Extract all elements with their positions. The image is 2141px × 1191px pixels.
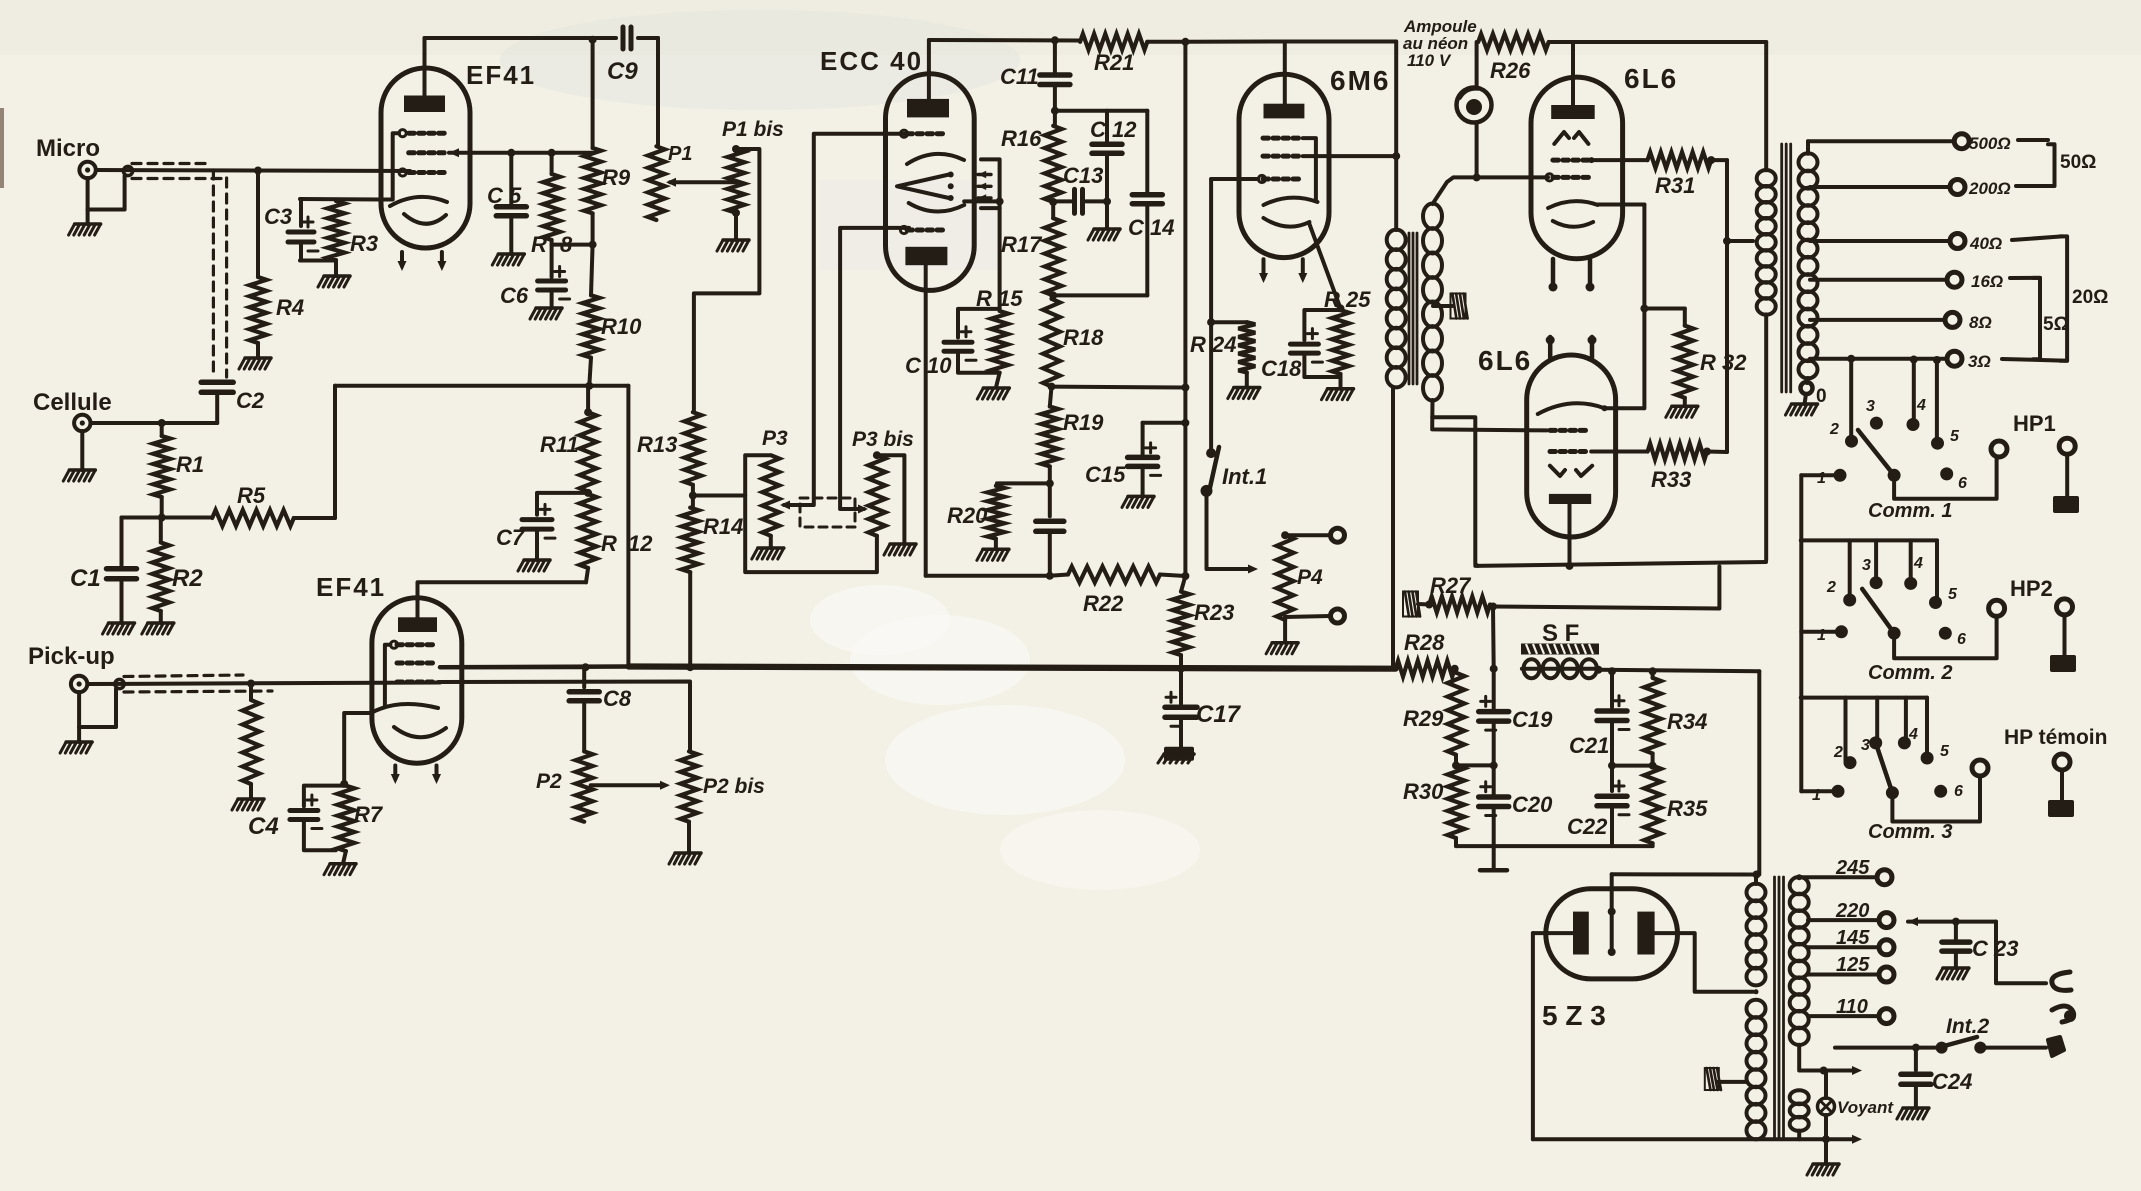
label R10: [601, 314, 642, 339]
svg-text:3: 3: [1862, 557, 1871, 574]
wire C3-R3 top node: [300, 197, 392, 202]
svg-text:R18: R18: [1063, 325, 1104, 350]
node R33 right: [1703, 448, 1711, 456]
node R9 bottom: [589, 241, 597, 249]
wire R9-R10 link: [591, 213, 595, 244]
tube 6M6 cathode arc: [1264, 198, 1318, 205]
wire B+ corner drop: [1757, 671, 1761, 874]
wire T2 primary bottom: [1799, 1045, 1823, 1071]
label R3: [350, 231, 378, 256]
svg-text:220: 220: [1835, 900, 1869, 922]
label 200ohm: [1968, 179, 2011, 198]
tap 125: [1808, 967, 1894, 982]
capacitor C18: [1290, 310, 1340, 377]
wire 3 to brackets: [2002, 359, 2067, 361]
transformer T2 filament winding: [1790, 1090, 1809, 1131]
svg-text:C3: C3: [264, 204, 292, 229]
ground C5: [492, 254, 524, 265]
svg-text:C 12: C 12: [1090, 117, 1137, 142]
tube EF41-2 grid row g1: [397, 680, 433, 685]
resistor R13: [684, 412, 701, 507]
label 6M6: [1330, 65, 1390, 96]
tap 500: [1808, 134, 1969, 154]
label 245: [1835, 857, 1870, 879]
wire shield dashes bottom: [132, 177, 222, 180]
label C18: [1261, 356, 1302, 381]
label R32: [1700, 350, 1747, 375]
capacitor C11: [1040, 40, 1070, 126]
wire bus drop x628: [626, 386, 630, 667]
node voyant top: [1820, 1067, 1828, 1075]
ground C12: [1088, 229, 1120, 240]
tube 6L6-2 cathode arc: [1538, 403, 1605, 414]
label Voyant: [1837, 1098, 1894, 1117]
wire T1 primary bottom: [1391, 387, 1395, 669]
label R20: [947, 503, 988, 528]
capacitor C10: [944, 309, 1000, 373]
ground OPT 0: [1786, 394, 1818, 415]
wire EF41-2 screen exit: [440, 665, 584, 669]
label Micro: [36, 135, 100, 162]
tube ECC40 cathode arc upper: [907, 154, 964, 164]
node R17 bottom: [1049, 291, 1057, 299]
svg-text:6M6: 6M6: [1330, 65, 1390, 96]
node R24 tap: [1207, 318, 1215, 326]
switch Int.1: [1201, 447, 1220, 497]
node C23 tap: [1952, 918, 1960, 926]
wire R8-R9 bottom link: [552, 243, 593, 247]
svg-text:C9: C9: [607, 58, 638, 85]
node R25 top: [1337, 304, 1345, 312]
label comm1 digits: [1817, 397, 1967, 492]
ground HP3: [2048, 800, 2074, 817]
tube EF41-1 grid row g2: [409, 150, 445, 155]
plug prong a: [2052, 972, 2071, 990]
label ECC40: [820, 46, 923, 76]
tube 6L6-1 plate box: [1551, 105, 1595, 119]
resistor R12: [580, 492, 597, 583]
capacitor C22: [1597, 766, 1629, 847]
svg-text:C11: C11: [1000, 64, 1039, 89]
label P2: [536, 770, 562, 793]
svg-text:20Ω: 20Ω: [2072, 287, 2108, 308]
ground Voyant: [1807, 1139, 1839, 1175]
tap 3: [1810, 351, 1962, 366]
capacitor C6: [538, 245, 570, 308]
svg-text:16Ω: 16Ω: [1971, 272, 2003, 291]
wire R21 to rail: [1147, 40, 1185, 44]
switch Comm2 contacts: [1835, 576, 1952, 640]
svg-text:5Ω: 5Ω: [2043, 314, 2069, 335]
svg-text:R31: R31: [1655, 173, 1695, 198]
label R27: [1430, 573, 1472, 598]
tube ECC40 grid row 2: [900, 226, 942, 233]
label R21: [1094, 50, 1134, 75]
capacitor C2: [201, 382, 233, 423]
resistor R28: [1396, 661, 1455, 677]
tube 6M6 heater arc: [1264, 218, 1310, 227]
tube 5Z3 plate right: [1637, 912, 1654, 955]
label C22: [1567, 814, 1608, 839]
wire ECC40 cathode link: [964, 197, 1003, 205]
svg-text:3Ω: 3Ω: [1968, 352, 1991, 371]
svg-text:6: 6: [1957, 631, 1966, 648]
wire cathode bus link: [1493, 567, 1719, 609]
resistor R23: [1173, 576, 1190, 669]
label C2: [236, 388, 265, 413]
svg-text:Comm. 2: Comm. 2: [1868, 662, 1952, 684]
label C13: [1063, 163, 1103, 188]
svg-text:R11: R11: [540, 432, 579, 457]
switch Comm3 contacts: [1832, 736, 1948, 799]
svg-text:Comm. 3: Comm. 3: [1868, 821, 1952, 843]
wire EF41-1 plate stem: [423, 38, 427, 96]
svg-text:R30: R30: [1403, 779, 1444, 804]
wire R13 to P3: [693, 455, 769, 495]
wire EF41-2 cathode lead: [344, 713, 371, 784]
svg-text:R1: R1: [176, 452, 204, 477]
tube ECC40 cathode arc lower: [909, 203, 965, 212]
capacitor C23: [1942, 922, 1970, 968]
resistor R22: [1050, 567, 1186, 583]
label HP2: [2010, 576, 2053, 601]
wire Micro jack ground jog: [88, 176, 125, 210]
wire 6L6-2 plate stem: [1566, 504, 1574, 570]
wire C23 line: [1908, 917, 1996, 926]
label R4: [276, 295, 304, 320]
wire ECC40 top line: [929, 38, 1080, 43]
node Cellule-R1 junction: [158, 419, 166, 427]
svg-text:2: 2: [1833, 744, 1843, 761]
plug prong b: [2048, 1037, 2064, 1056]
svg-text:C2: C2: [236, 388, 265, 413]
tube ECC40 anode1 box: [907, 99, 949, 118]
transformer T2 HV winding lower: [1747, 1000, 1766, 1140]
label R22: [1083, 591, 1124, 616]
label HP1: [2013, 411, 2056, 436]
ground C15: [1122, 496, 1154, 507]
resistor R10: [583, 245, 600, 386]
wire bottom bus: [628, 667, 1395, 669]
svg-text:2: 2: [1829, 421, 1839, 438]
svg-text:1: 1: [1817, 470, 1826, 487]
label Int.1: [1222, 464, 1267, 489]
label 50ohm: [2060, 152, 2096, 173]
svg-text:6: 6: [1954, 783, 1963, 800]
resistor R14: [682, 508, 699, 667]
transformer T1 secondary: [1423, 204, 1442, 401]
svg-text:P3 bis: P3 bis: [852, 428, 914, 451]
label C9: [607, 58, 638, 85]
label comm3 digits: [1812, 726, 1963, 804]
svg-text:4: 4: [1913, 555, 1923, 572]
wire grid line to P2bis: [438, 682, 690, 752]
tube 6L6-2 heater chevrons: [1550, 466, 1592, 476]
resistor R4: [250, 171, 267, 344]
svg-text:R2: R2: [172, 565, 203, 592]
node T1 primary bus corner: [1391, 666, 1396, 671]
resistor R34: [1644, 671, 1661, 753]
wire Comm3 bus end: [1801, 789, 1831, 793]
label 20ohm: [2072, 287, 2108, 308]
ground T1 center tap: [1451, 294, 1468, 319]
wire EF41-1 plate top line: [425, 36, 617, 40]
label 3ohm: [1968, 352, 1991, 371]
label 220: [1835, 900, 1869, 922]
svg-text:40Ω: 40Ω: [1969, 234, 2002, 253]
svg-text:C6: C6: [500, 283, 529, 308]
svg-text:R4: R4: [276, 295, 304, 320]
svg-text:R7: R7: [354, 802, 384, 827]
node C21-C22 junction: [1608, 762, 1653, 770]
label 5ohm: [2043, 314, 2069, 335]
terminal HP3 b: [2054, 754, 2070, 800]
label R12: [601, 531, 653, 556]
lamp neon: [1457, 42, 1492, 123]
wire neon to grid line: [1473, 123, 1481, 182]
tap 110: [1808, 1009, 1894, 1024]
wire grid1 feed: [780, 134, 907, 510]
node Pickup-R6 junction: [247, 680, 255, 688]
ground R24: [1228, 373, 1260, 399]
svg-text:P1 bis: P1 bis: [722, 118, 784, 141]
wire R5 riser: [333, 386, 337, 518]
capacitor C8: [569, 667, 599, 751]
tube 6M6 grid row g3: [1263, 136, 1299, 141]
tube EF41-1 envelope: [381, 68, 470, 248]
wire top line to OPT corner: [1573, 40, 1766, 44]
label Int.2: [1946, 1015, 1989, 1038]
tube 6L6-2 grid row screen: [1550, 449, 1586, 454]
wire pickup shield dashes: [124, 675, 272, 692]
wire T1 secondary bottom lead: [1432, 400, 1547, 430]
label R28: [1404, 630, 1445, 655]
node R27 right: [1489, 603, 1497, 611]
capacitor C13: [1053, 189, 1107, 213]
capacitor C20: [1479, 765, 1509, 846]
wire top line after C9: [638, 38, 658, 146]
node R20 junction: [1046, 479, 1054, 487]
resistor R6: [243, 684, 260, 785]
label 40ohm: [1969, 234, 2002, 253]
capacitor C21: [1597, 671, 1629, 765]
svg-text:C17: C17: [1196, 701, 1242, 728]
wire Comm1 pos1 branch: [1801, 475, 1840, 791]
wire voyant bottom: [1822, 1115, 1830, 1143]
svg-text:ECC 40: ECC 40: [820, 46, 923, 76]
wire 5Z3 left plate lead: [1533, 931, 1573, 935]
transformer T1 primary: [1387, 230, 1406, 388]
ground R2: [142, 611, 174, 634]
svg-text:3: 3: [1861, 737, 1870, 754]
potentiometer P3: [762, 455, 779, 536]
wire EF41-2 plate stem and line: [418, 582, 587, 617]
ground HP2: [2050, 655, 2076, 672]
label 125: [1836, 954, 1870, 976]
wire Comm1 output: [1894, 457, 1997, 499]
wire OPT primary top lead: [1764, 42, 1768, 170]
transformer OPT core: [1782, 144, 1791, 392]
bracket 50ohm: [2048, 144, 2055, 186]
node T2 HV center tap: [1754, 989, 1759, 994]
wire 200 to bracket: [2016, 184, 2048, 188]
wire T1 center tap: [1433, 304, 1452, 308]
svg-text:R19: R19: [1063, 410, 1104, 435]
choke SF: [1522, 659, 1599, 678]
tube 6M6 plate box: [1264, 104, 1305, 119]
wire 16 to bracket: [2010, 276, 2040, 280]
svg-text:1: 1: [1817, 627, 1826, 644]
label C1: [70, 565, 101, 592]
label Comm2: [1868, 662, 1952, 684]
wire P2 wiper: [591, 781, 670, 790]
resistor R32: [1676, 309, 1693, 398]
wire filter bottom rail: [1456, 844, 1653, 848]
node R11-R12 junction: [584, 489, 592, 497]
svg-text:R17: R17: [1001, 232, 1043, 257]
potentiometer P1: [648, 146, 665, 220]
pin EF41-2 heater pins: [391, 766, 441, 785]
tube 6L6-1 envelope: [1531, 77, 1623, 259]
svg-text:Int.1: Int.1: [1222, 464, 1267, 489]
ground P3bis: [884, 544, 916, 555]
switch Int.2: [1835, 1037, 1986, 1054]
svg-text:R: R: [601, 531, 617, 556]
wire 6L6-2 screen exit: [1591, 450, 1647, 454]
ground T2 bias tap: [1705, 1068, 1746, 1090]
resistor R26: [1478, 34, 1549, 50]
resistor R24: [1211, 322, 1255, 372]
label 0: [1816, 386, 1827, 407]
bracket 20ohm: [2060, 236, 2067, 360]
svg-text:4: 4: [1908, 726, 1918, 743]
label P3bis: [852, 428, 914, 451]
wire drop to comm1-2: [1847, 355, 1855, 442]
wire R27 drop to bus: [1491, 607, 1496, 669]
tube 6L6-1 heater arc: [1553, 221, 1593, 227]
label P1: [668, 143, 692, 165]
ground Cellule: [63, 431, 95, 481]
svg-text:C20: C20: [1512, 792, 1553, 817]
svg-text:8Ω: 8Ω: [1969, 313, 1992, 332]
connector Cellule jack: [74, 415, 90, 431]
tube 6M6 envelope: [1239, 74, 1329, 257]
svg-text:C13: C13: [1063, 163, 1103, 188]
wire Int.1 to P4: [1207, 491, 1259, 574]
wire 6M6 screen feed: [1303, 152, 1400, 160]
label C7: [496, 525, 526, 550]
wire top line rail to 6M6: [1185, 40, 1284, 44]
wire Comm2 pos1 link: [1801, 630, 1841, 634]
label C24: [1932, 1069, 1972, 1094]
label C17: [1196, 701, 1242, 728]
wire 5Z3 left side down: [1531, 933, 1535, 1139]
terminal HP1 a: [1991, 441, 2007, 457]
wire 5Z3 filament to PSU: [1612, 872, 1757, 876]
resistor R15: [991, 311, 1008, 373]
svg-text:S F: S F: [1542, 620, 1579, 647]
tap 200: [1810, 180, 1965, 195]
node R23 bus junction: [1177, 665, 1185, 673]
capacitor C5: [496, 149, 526, 254]
svg-text:R35: R35: [1667, 796, 1708, 821]
node R34-R35 junction: [1649, 762, 1657, 770]
wire 6M6 plate drop: [1394, 42, 1398, 231]
capacitor C1: [107, 518, 137, 579]
label P2bis: [703, 775, 765, 798]
svg-text:C19: C19: [1512, 707, 1553, 732]
capacitor C24: [1901, 1048, 1931, 1108]
label 5Z3: [1542, 1000, 1606, 1031]
transformer T2 core: [1775, 877, 1784, 1139]
label R30: [1403, 779, 1444, 804]
svg-text:Cellule: Cellule: [33, 389, 112, 416]
tube EF41-2 cathode arc: [371, 704, 438, 713]
resistor R11: [580, 386, 597, 492]
potentiometer P3bis: [868, 451, 885, 536]
wire Comm2 feed line: [1799, 538, 1937, 543]
svg-text:6L6: 6L6: [1478, 345, 1532, 376]
wire 5Z3 filament: [1608, 874, 1616, 956]
wire P3-P3bis bottom loop: [745, 496, 877, 573]
wire OPT primary bottom lead: [1764, 314, 1768, 560]
node PSU top corner: [1753, 871, 1761, 879]
svg-text:12: 12: [628, 531, 653, 556]
label C21: [1569, 733, 1609, 758]
shield entry circle: [123, 166, 132, 175]
wire bottom bus left stub: [440, 664, 628, 669]
wire Comm2 feed drops: [1850, 540, 1937, 601]
wire shield dashes top: [132, 162, 211, 165]
label C3: [264, 204, 292, 229]
svg-text:R28: R28: [1404, 630, 1445, 655]
svg-text:6: 6: [1958, 475, 1967, 492]
pin EF41-1 heater pins: [398, 252, 447, 271]
pin 6L6-2 heater pins: [1546, 336, 1597, 359]
transformer T2 HV winding upper: [1747, 884, 1766, 986]
wire B+ line right: [1599, 670, 1760, 672]
label P3: [762, 427, 788, 450]
svg-text:R16: R16: [1001, 126, 1042, 151]
wire drop to comm1-4: [1910, 356, 1918, 425]
tube EF41-2 envelope: [372, 598, 462, 763]
wire 6M6 g3 tie: [1303, 138, 1316, 200]
node R7 top: [340, 780, 348, 788]
wire 6L6-1 screen exit: [1592, 158, 1648, 162]
potentiometer P2: [576, 751, 593, 821]
svg-text:110: 110: [1836, 996, 1868, 1018]
node R31 right: [1707, 156, 1715, 164]
potentiometer P1bis: [728, 145, 745, 217]
label R33: [1651, 467, 1691, 492]
choke SF core: [1521, 644, 1599, 655]
node C19-C20 junction: [1490, 761, 1498, 769]
svg-text:R3: R3: [350, 231, 378, 256]
svg-text:R21: R21: [1094, 50, 1134, 75]
tube EF41-2 plate box: [398, 617, 437, 632]
label C20: [1512, 792, 1553, 817]
plug prong curl: [2052, 1006, 2076, 1022]
terminal HP2 b: [2057, 599, 2073, 655]
wire C23 to plug: [1996, 922, 2046, 984]
label R31: [1655, 173, 1695, 198]
wire EF41-1 g3 to cathode: [393, 133, 399, 199]
wire R33 to rail: [1707, 450, 1727, 455]
svg-text:HP1: HP1: [2013, 411, 2056, 436]
ground C1: [103, 579, 135, 634]
svg-text:R22: R22: [1083, 591, 1124, 616]
svg-text:HP témoin: HP témoin: [2004, 726, 2107, 749]
